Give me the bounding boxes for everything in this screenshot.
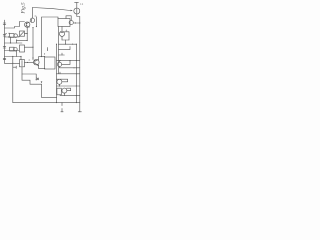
svg-text:Fig.5: Fig.5 (21, 2, 27, 15)
svg-text:11: 11 (80, 2, 84, 6)
